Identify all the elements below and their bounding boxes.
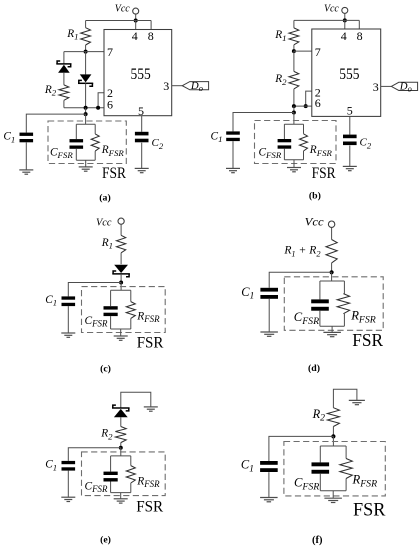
wire RFSR branch bottom (d) <box>343 314 345 327</box>
ground FSR (a) <box>79 167 93 171</box>
capacitor C2 (b) <box>343 135 357 146</box>
wire node into FSR box (f) <box>332 436 334 446</box>
wire node into FSR box (b) <box>293 113 295 125</box>
svg-text:R1 + R2: R1 + R2 <box>283 244 320 259</box>
svg-text:Vcc: Vcc <box>324 3 339 15</box>
svg-text:C1: C1 <box>3 131 15 145</box>
ground FSR (d) <box>323 332 341 336</box>
svg-text:RFSR: RFSR <box>136 475 160 489</box>
capacitor C1 (b) <box>226 131 240 141</box>
diode D1 cathode-up (e) <box>112 405 130 417</box>
resistor RFSR (a) <box>91 134 99 151</box>
wire FSR top bar (e) <box>111 455 131 457</box>
svg-text:(b): (b) <box>309 191 321 202</box>
wire C1 to ground (d) <box>268 299 270 332</box>
resistor RFSR (f) <box>340 459 352 479</box>
wire CFSR branch bottom (c) <box>110 316 112 329</box>
wire pin 5 (a) <box>141 116 143 132</box>
node junction (e) <box>119 446 123 450</box>
svg-text:C1: C1 <box>241 458 254 475</box>
wire Vcc to rail (a) <box>135 14 137 20</box>
capacitor C1 (c) <box>62 296 76 306</box>
svg-text:Vcc: Vcc <box>115 3 130 15</box>
svg-text:4: 4 <box>132 29 138 43</box>
ground C2 (a) <box>135 168 149 172</box>
capacitor CFSR (a) <box>70 139 84 149</box>
wire CFSR branch top (c) <box>110 290 112 306</box>
wire C1 to ground (e) <box>67 471 69 498</box>
wire RFSR branch top (a) <box>94 124 96 134</box>
svg-text:555: 555 <box>131 66 151 83</box>
resistor R2 (f) <box>327 408 339 427</box>
resistor R1 (a) <box>81 28 91 45</box>
node pin2 junction (b) <box>304 104 308 108</box>
ground C1 (d) <box>260 332 278 336</box>
wire to C1 (c) <box>68 283 121 297</box>
wire RFSR branch top (c) <box>130 290 132 301</box>
svg-text:RFSR: RFSR <box>136 310 160 324</box>
svg-text:(f): (f) <box>312 535 323 546</box>
wire pin 6 (b) <box>294 105 312 107</box>
wire FSR to ground (a) <box>85 160 87 167</box>
resistor R2 (a) <box>59 85 69 100</box>
diode D1 cathode-down (c) <box>112 265 130 277</box>
wire rail to pin 4 (b) <box>344 20 346 29</box>
wire CFSR branch top (e) <box>110 456 112 472</box>
svg-text:CFSR: CFSR <box>294 475 319 492</box>
svg-text:C1: C1 <box>211 130 223 144</box>
wire FSR top bar (d) <box>320 280 345 282</box>
svg-text:CFSR: CFSR <box>85 480 108 494</box>
FSR dashed box (a) <box>48 121 126 164</box>
capacitor C1 (a) <box>20 133 34 143</box>
Vcc terminal (a) <box>133 8 139 14</box>
wire C2 to ground (b) <box>349 146 351 167</box>
FSR dashed box (b) <box>255 121 337 164</box>
svg-text:R1: R1 <box>274 29 286 43</box>
svg-text:(d): (d) <box>308 363 320 374</box>
ground C1 (b) <box>226 168 240 172</box>
ground top (f) <box>349 400 365 404</box>
wire rail to R1 top (a) <box>85 21 87 28</box>
wire to C1 (d) <box>269 272 331 288</box>
wire pin 3 (a) <box>172 85 183 87</box>
svg-text:FSR: FSR <box>353 501 386 521</box>
wire FSR bottom bar (d) <box>320 325 345 327</box>
output tag Do (b) <box>391 82 417 90</box>
svg-text:8: 8 <box>148 29 154 43</box>
ground C1 (a) <box>19 170 33 174</box>
wire C1 to ground (f) <box>268 472 270 497</box>
svg-text:FSR: FSR <box>312 165 337 182</box>
wire FSR to ground (f) <box>332 491 334 499</box>
svg-text:R1: R1 <box>101 237 113 251</box>
svg-text:4: 4 <box>341 29 347 43</box>
wire rail to pin 8 (b) <box>358 20 360 29</box>
wire node into FSR box (e) <box>120 448 122 456</box>
wire Vcc to rail (b) <box>344 13 346 20</box>
wire to C1 (a) <box>26 114 85 133</box>
wire resistor to node (d) <box>331 263 333 272</box>
wire C1 to ground (a) <box>25 142 27 170</box>
resistor RFSR (d) <box>337 294 349 314</box>
svg-text:R2: R2 <box>44 84 57 98</box>
svg-text:6: 6 <box>315 96 321 110</box>
svg-text:Vcc: Vcc <box>96 217 112 229</box>
wire RFSR branch bottom (a) <box>94 151 96 160</box>
wire FSR bottom bar (b) <box>284 159 303 161</box>
FSR dashed box (c) <box>82 287 166 333</box>
output tag Do (a) <box>182 82 208 90</box>
wire CFSR branch bottom (a) <box>75 149 77 160</box>
resistor R1+R2 (d) <box>326 240 337 263</box>
node C1 junction (a) <box>84 112 88 116</box>
wire FSR to ground (b) <box>293 160 295 168</box>
svg-text:FSR: FSR <box>352 330 383 350</box>
wire FSR top bar (b) <box>284 123 303 125</box>
wire rail to R1 top (b) <box>293 20 295 28</box>
svg-text:R1: R1 <box>66 28 78 42</box>
op 555 IC box (a) <box>104 30 172 116</box>
svg-text:(a): (a) <box>99 192 110 203</box>
svg-text:R2: R2 <box>312 407 326 424</box>
FSR dashed box (f) <box>284 442 385 496</box>
wire R1 to node7 (a) <box>85 45 87 52</box>
Vcc terminal (b) <box>342 7 348 13</box>
wire FSR top bar (a) <box>76 123 95 125</box>
wire rail to pin 4 (a) <box>135 21 137 30</box>
wire diode to node (c) <box>120 274 122 283</box>
svg-text:Vcc: Vcc <box>305 215 325 229</box>
wire RFSR branch bottom (f) <box>345 479 347 491</box>
svg-text:RFSR: RFSR <box>101 144 125 158</box>
wire R2 to node (e) <box>120 443 122 448</box>
wire RFSR branch top (f) <box>345 446 347 459</box>
op 555 IC box (b) <box>312 29 381 116</box>
wire D1 to R2 (a) <box>63 73 65 85</box>
wire node into FSR box (d) <box>331 272 333 281</box>
svg-text:5: 5 <box>138 104 144 118</box>
wire FSR bottom bar (e) <box>111 492 131 494</box>
wire node to C1 branch (b) <box>293 106 295 112</box>
node junction (f) <box>331 434 335 438</box>
node pin7 junction (b) <box>292 49 296 53</box>
wire node into FSR box (a) <box>85 114 87 124</box>
ground FSR (f) <box>324 498 342 502</box>
wire Vcc rail (b) <box>294 19 359 21</box>
wire FSR bottom bar (c) <box>111 328 131 330</box>
capacitor CFSR (d) <box>311 299 329 310</box>
svg-text:FSR: FSR <box>102 165 127 182</box>
Vcc terminal (c) <box>118 218 124 224</box>
wire FSR to ground (c) <box>120 329 122 336</box>
resistor R2 (b) <box>289 71 299 89</box>
ground FSR (e) <box>114 499 128 503</box>
capacitor C1 (f) <box>260 461 278 472</box>
wire R2 to node (f) <box>332 427 334 437</box>
wire CFSR branch bottom (d) <box>319 311 321 327</box>
FSR dashed box (d) <box>284 277 383 331</box>
svg-text:7: 7 <box>315 45 321 59</box>
node junction (d) <box>330 270 334 274</box>
svg-text:RFSR: RFSR <box>352 473 378 490</box>
capacitor C1 (e) <box>62 461 76 471</box>
capacitor C1 (d) <box>260 288 278 299</box>
svg-text:(c): (c) <box>100 363 111 374</box>
ground C1 (e) <box>61 497 75 501</box>
resistor RFSR (c) <box>126 302 135 319</box>
wire pin 7 (b) <box>294 50 312 52</box>
wire node7 to D2 (a) <box>85 52 87 75</box>
resistor R1 (c) <box>117 235 126 253</box>
capacitor CFSR (c) <box>104 306 118 316</box>
wire to C1 (b) <box>233 113 294 132</box>
wire FSR to ground (d) <box>331 326 333 332</box>
wire node7 to R2 (b) <box>293 51 295 71</box>
wire pin 5 (b) <box>349 116 351 134</box>
svg-text:3: 3 <box>373 80 379 94</box>
wire to C1 (e) <box>68 448 121 461</box>
wire CFSR branch top (a) <box>75 124 77 139</box>
wire FSR top bar (f) <box>320 445 346 447</box>
wire top rail (f) <box>333 389 357 408</box>
wire diode to R2 (e) <box>120 417 122 426</box>
resistor R1 (b) <box>289 28 299 45</box>
wire FSR top bar (c) <box>111 289 131 291</box>
wire node to C1 branch (a) <box>85 108 87 114</box>
wire pin 6 (a) <box>64 107 104 109</box>
ground FSR (b) <box>287 168 301 172</box>
svg-text:5: 5 <box>347 104 353 118</box>
wire pin7 to D1 (a) <box>63 52 65 64</box>
capacitor C2 (a) <box>135 132 149 143</box>
wire CFSR branch top (d) <box>319 281 321 299</box>
wire Vcc rail (a) <box>86 20 152 22</box>
ground top (e) <box>144 407 158 411</box>
wire pin 2 (b) <box>306 91 312 106</box>
node pin2 junction (a) <box>96 106 100 110</box>
node Vcc rail junction (b) <box>343 18 347 22</box>
wire node into FSR box (c) <box>120 283 122 291</box>
wire CFSR branch bottom (b) <box>283 149 285 160</box>
wire R2 to pin6 line (a) <box>63 100 65 107</box>
resistor RFSR (e) <box>126 466 135 483</box>
ground FSR (c) <box>114 336 128 340</box>
svg-text:R2: R2 <box>274 73 287 87</box>
svg-text:555: 555 <box>339 66 359 83</box>
wire CFSR branch top (f) <box>319 446 321 462</box>
wire to C1 (f) <box>269 436 334 461</box>
diode D1 cathode-up (a) <box>56 61 71 73</box>
svg-text:R2: R2 <box>100 428 113 442</box>
node junction (c) <box>119 281 123 285</box>
node C1 junction (b) <box>292 111 296 115</box>
wire FSR to ground (e) <box>120 493 122 499</box>
wire pin 2 (a) <box>98 93 104 108</box>
ground C1 (c) <box>61 333 75 337</box>
svg-text:FSR: FSR <box>137 332 164 351</box>
ground C2 (b) <box>343 166 357 170</box>
capacitor CFSR (e) <box>104 472 118 482</box>
svg-text:7: 7 <box>107 45 113 59</box>
svg-text:(e): (e) <box>100 534 111 545</box>
wire C1 to ground (b) <box>232 141 234 168</box>
svg-text:RFSR: RFSR <box>350 308 376 325</box>
wire C2 to ground (a) <box>141 143 143 169</box>
svg-text:C1: C1 <box>45 294 57 308</box>
svg-text:6: 6 <box>107 97 113 111</box>
svg-text:C2: C2 <box>152 137 164 151</box>
Vcc terminal (d) <box>328 221 334 227</box>
wire RFSR branch bottom (b) <box>303 151 305 160</box>
svg-text:8: 8 <box>357 29 363 43</box>
wire D2 to node (a) <box>85 83 87 107</box>
wire RFSR branch top (b) <box>303 124 305 134</box>
svg-text:C2: C2 <box>360 137 372 151</box>
wire RFSR branch top (d) <box>343 281 345 294</box>
wire FSR bottom bar (a) <box>76 159 95 161</box>
svg-text:CFSR: CFSR <box>85 315 108 329</box>
wire RFSR branch top (e) <box>130 456 132 466</box>
resistor RFSR (b) <box>300 134 308 151</box>
wire CFSR branch bottom (f) <box>319 474 321 491</box>
wire Vcc to R1 (c) <box>120 224 122 235</box>
svg-text:FSR: FSR <box>136 496 163 515</box>
wire top rail (e) <box>121 392 151 408</box>
resistor R2 (e) <box>115 427 126 443</box>
wire Vcc to resistor (d) <box>331 227 333 239</box>
wire pin 7 (a) <box>64 51 104 53</box>
FSR dashed box (e) <box>82 452 166 496</box>
ground C1 (f) <box>260 498 278 502</box>
capacitor CFSR (f) <box>312 462 330 473</box>
node trigger junction (b) <box>292 104 296 108</box>
wire R2 to node (b) <box>293 89 295 106</box>
wire rail to pin 8 (a) <box>150 21 152 30</box>
node trigger junction (a) <box>84 106 88 110</box>
node Vcc rail junction (a) <box>134 19 138 23</box>
wire R1 to node7 (b) <box>293 45 295 51</box>
diode D2 cathode-down (a) <box>78 74 93 86</box>
wire R1 to diode (c) <box>120 253 122 264</box>
node pin7 junction (a) <box>84 50 88 54</box>
svg-text:C1: C1 <box>241 285 254 302</box>
wire RFSR branch bottom (e) <box>130 483 132 493</box>
wire C1 to ground (c) <box>67 306 69 333</box>
svg-text:CFSR: CFSR <box>294 310 319 327</box>
capacitor CFSR (b) <box>278 139 292 149</box>
wire CFSR branch bottom (e) <box>110 482 112 493</box>
wire FSR bottom bar (f) <box>320 490 346 492</box>
svg-text:C1: C1 <box>45 459 57 473</box>
svg-text:3: 3 <box>163 79 169 93</box>
svg-text:RFSR: RFSR <box>309 144 333 158</box>
wire CFSR branch top (b) <box>283 124 285 139</box>
wire RFSR branch bottom (c) <box>130 318 132 329</box>
wire pin 3 (b) <box>381 85 392 87</box>
